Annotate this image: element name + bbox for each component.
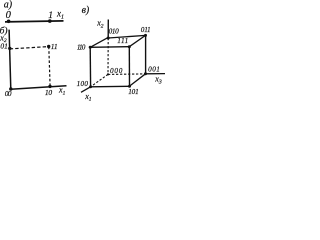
vertex dot 00 <box>9 87 12 90</box>
depth edge 110-010 <box>90 37 108 47</box>
hidden depth edge 000-100 dashed <box>91 74 108 86</box>
svg-text:00: 00 <box>5 89 12 98</box>
vertex dot 110 <box>89 46 92 49</box>
vertex dot 101 <box>128 85 131 88</box>
vertex dot 01 <box>8 47 11 50</box>
square right edge dashed 11-10 <box>49 47 50 87</box>
svg-text:001: 001 <box>148 66 160 74</box>
x3 axis from 001 to right edge <box>146 73 166 75</box>
svg-text:111: 111 <box>117 37 129 45</box>
vertex dot 111 <box>128 45 131 48</box>
cube front right edge 111-101 <box>128 47 130 87</box>
svg-text:0: 0 <box>6 10 12 21</box>
hidden back bottom edge 000-001 dashed <box>108 73 146 76</box>
x2 axis + square left edge <box>9 30 11 90</box>
hidden back left edge 010-000 dashed <box>107 38 109 74</box>
cube front top edge 110-111 <box>90 46 129 49</box>
point 1 dot <box>48 19 52 23</box>
depth edge 111-011 <box>129 35 145 46</box>
point 0 dot <box>7 20 11 24</box>
axis x1 line (part a) <box>5 21 64 22</box>
svg-text:1: 1 <box>48 11 53 21</box>
svg-text:000: 000 <box>110 67 123 75</box>
x1 axis stub beyond 100 <box>81 87 91 93</box>
cube front left edge 110-100 <box>89 47 91 87</box>
svg-text:11: 11 <box>51 42 58 51</box>
vertex dot 11 <box>47 45 50 48</box>
cube back top edge 010-011 <box>108 35 145 38</box>
vertex dot 001 <box>144 72 147 75</box>
svg-text:110: 110 <box>77 44 86 52</box>
cube back right edge 011-001 <box>145 35 147 73</box>
svg-text:010: 010 <box>109 27 119 35</box>
svg-text:10: 10 <box>45 88 52 97</box>
square top edge dashed 01-11 <box>10 47 49 49</box>
svg-text:101: 101 <box>128 88 138 96</box>
depth edge 101-001 <box>130 74 146 86</box>
svg-text:100: 100 <box>77 80 89 88</box>
svg-text:в): в) <box>82 5 90 16</box>
vertex dot 010 <box>107 37 110 40</box>
vertex dot 000 hidden <box>107 73 109 75</box>
square bottom edge + x1 axis <box>11 86 67 90</box>
cube front bottom edge 100-101 <box>91 85 130 88</box>
svg-text:011: 011 <box>141 26 151 34</box>
x2 axis (part v) <box>107 20 109 39</box>
vertex dot 011 <box>144 34 147 37</box>
svg-text:01: 01 <box>0 41 8 50</box>
vertex dot 10 <box>48 85 51 88</box>
vertex dot 100 <box>89 85 92 88</box>
